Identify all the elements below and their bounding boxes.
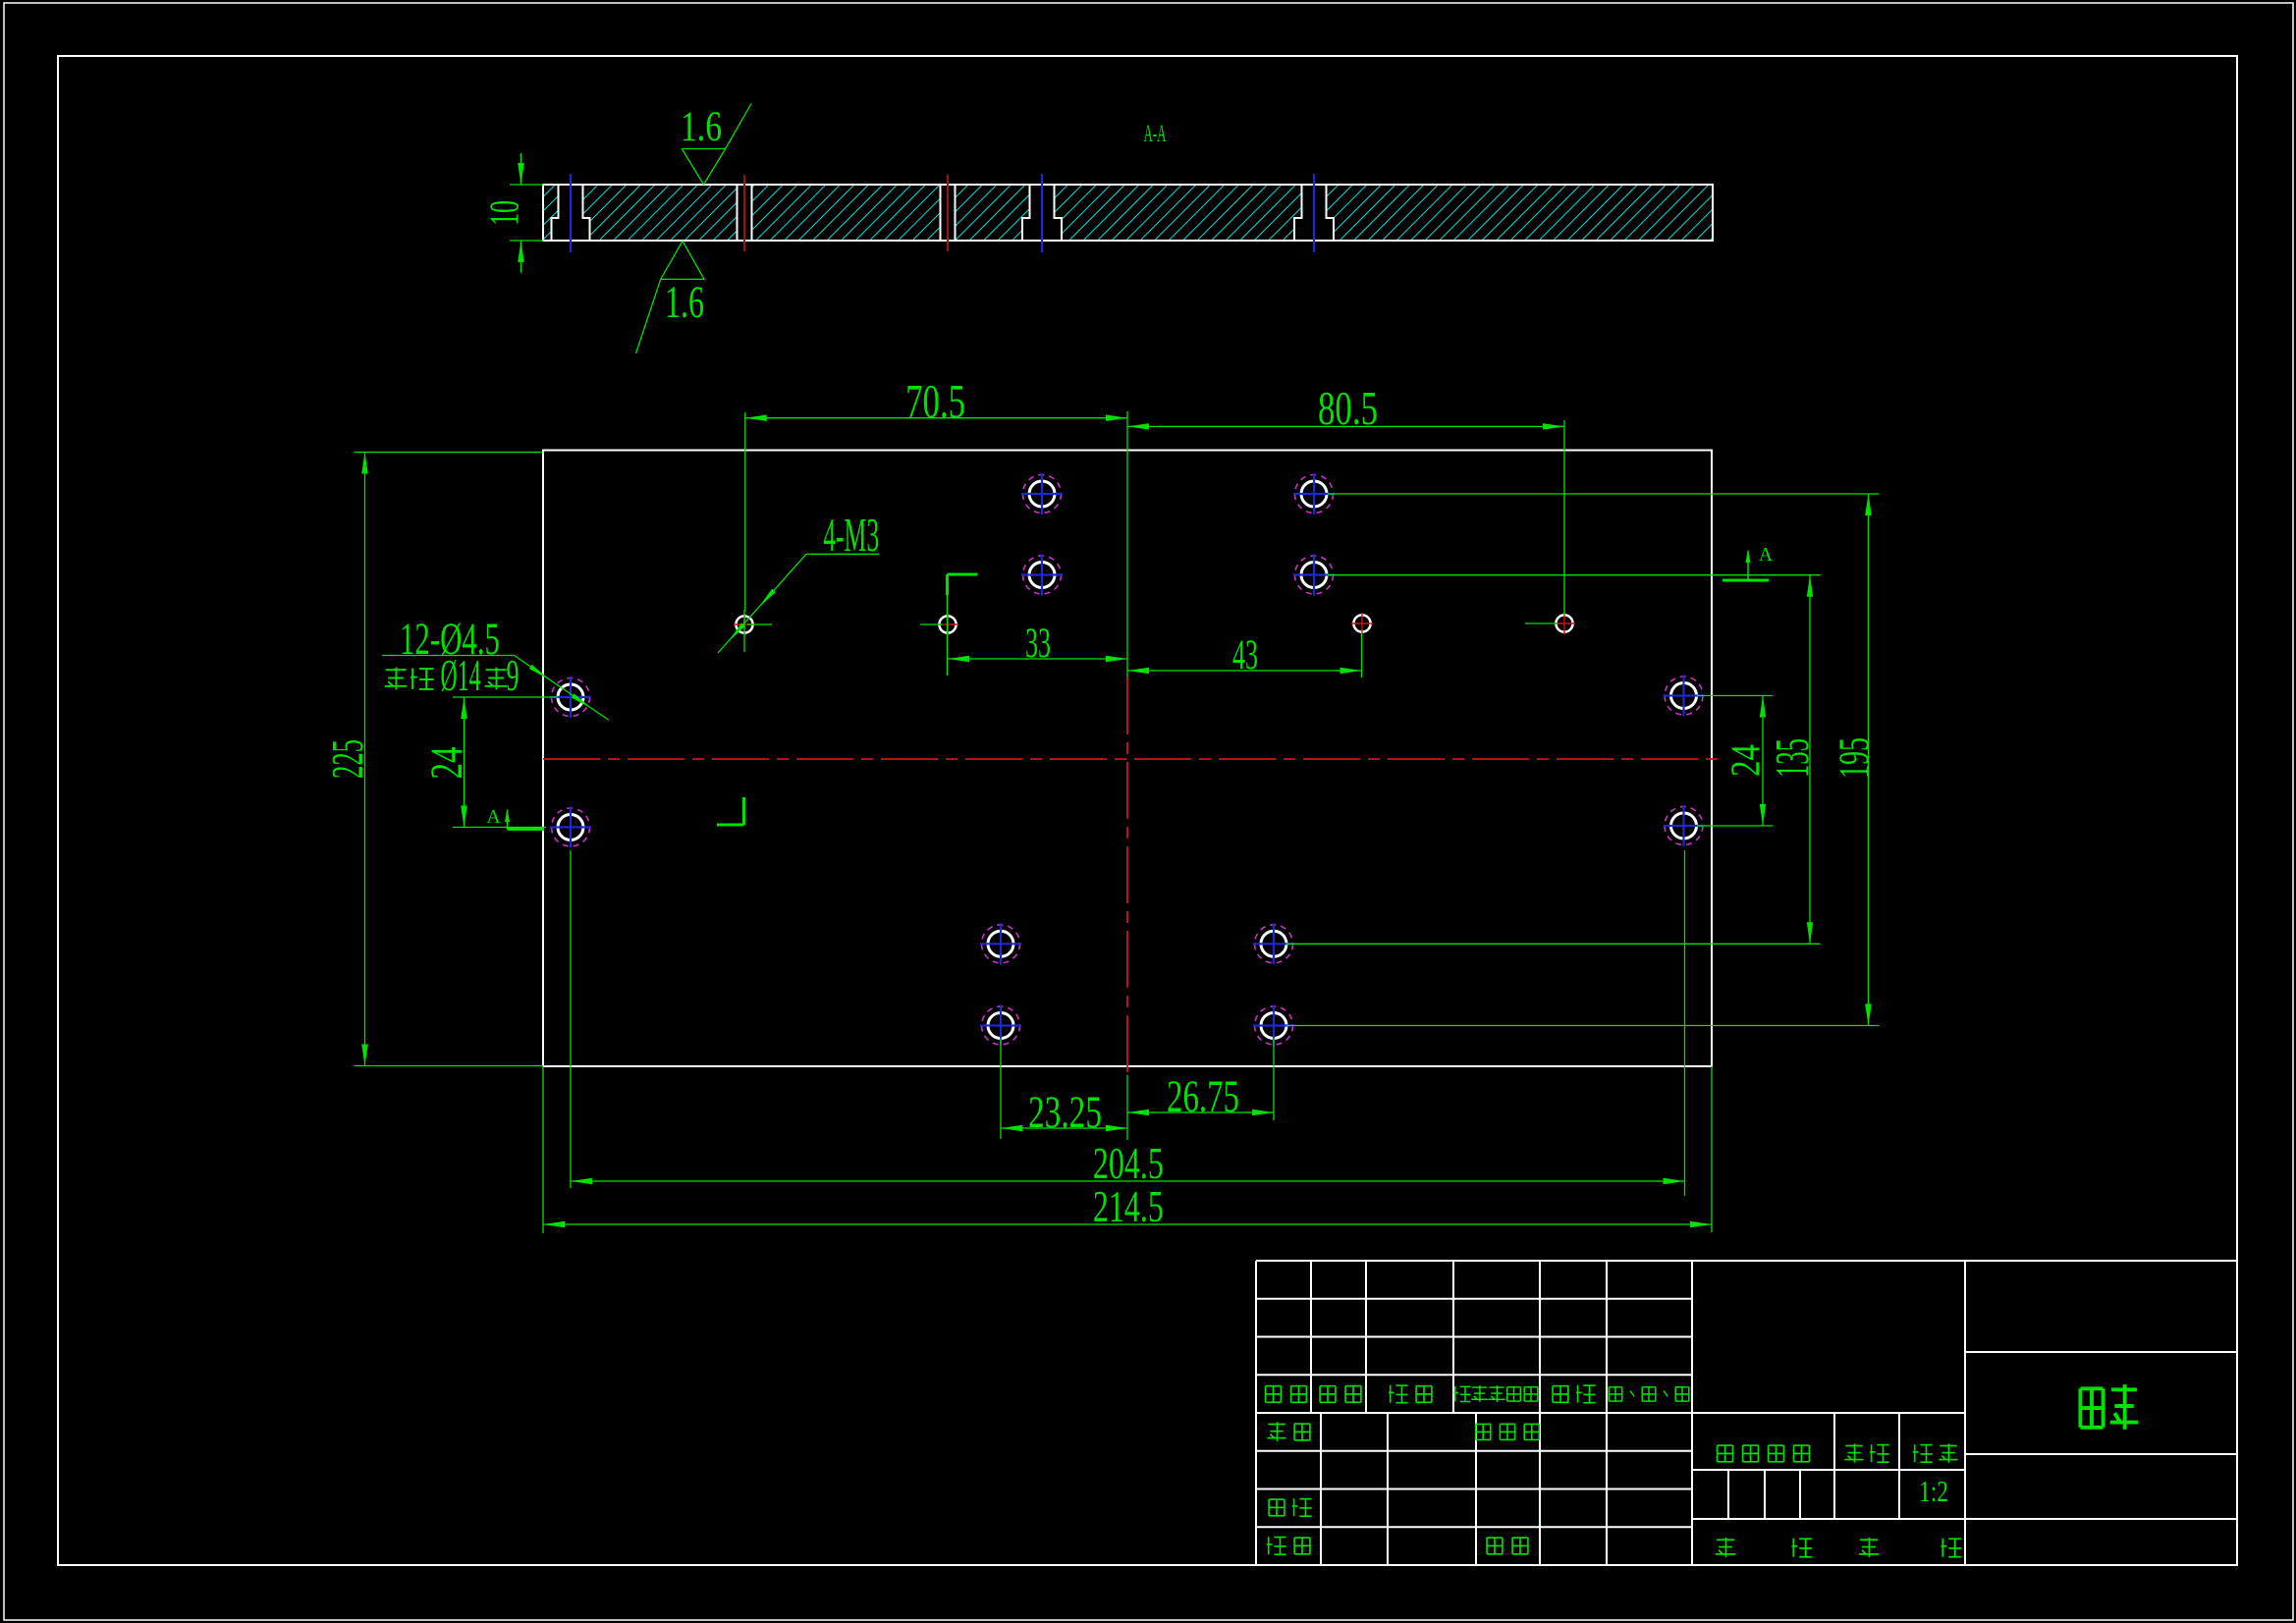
dimension 80.5 xyxy=(1127,383,1564,615)
section line bend mark 1 xyxy=(717,797,744,825)
label pizhun xyxy=(1487,1538,1528,1554)
dimension 204.5 xyxy=(571,850,1685,1196)
label zhongliang xyxy=(1844,1443,1888,1462)
section M3 tapped hole at x=965 xyxy=(941,175,956,251)
svg-text:9: 9 xyxy=(507,651,519,700)
counterbore hole (1338,585.5) xyxy=(1293,555,1335,596)
counterbore hole (1061,585.5) xyxy=(1021,555,1063,596)
label qianming xyxy=(1553,1385,1596,1403)
label chushu xyxy=(1320,1386,1361,1403)
svg-text:1.6: 1.6 xyxy=(665,277,704,328)
dimension 135 xyxy=(1286,575,1821,945)
counterbore hole (1338,503) xyxy=(1293,473,1335,514)
svg-text:A-A: A-A xyxy=(1144,119,1167,147)
counterbore hole (581,842.5) xyxy=(550,807,591,848)
svg-text:214.5: 214.5 xyxy=(1093,1182,1164,1231)
label gongyi xyxy=(1267,1537,1310,1554)
svg-text:A: A xyxy=(486,807,500,828)
M3 threaded hole (965,636) xyxy=(937,614,958,635)
counterbore hole (1019,961.3) xyxy=(980,923,1021,964)
horizontal centerline xyxy=(543,758,1719,760)
svg-text:43: 43 xyxy=(1232,631,1258,678)
svg-text:195: 195 xyxy=(1831,737,1878,779)
svg-text:23.25: 23.25 xyxy=(1028,1087,1102,1138)
section hole centerline x=581 xyxy=(570,174,572,252)
centerline extension top xyxy=(1126,411,1128,677)
label biaoji xyxy=(1266,1386,1307,1403)
scale 1:2 xyxy=(1919,1475,1948,1508)
dimension 10 (section thickness) xyxy=(482,153,543,273)
dimension 43 xyxy=(1127,631,1362,678)
vertical centerline xyxy=(1126,677,1128,1075)
label 12-dia4.5 counterbore xyxy=(382,614,609,721)
dimension 214.5 xyxy=(543,1066,1712,1233)
counterbore hole (1061,503) xyxy=(1021,473,1063,514)
svg-text:24: 24 xyxy=(1722,744,1769,777)
section marker A bottom xyxy=(486,807,544,830)
counterbore hole (581,710) xyxy=(550,676,591,718)
surface roughness 1.6 top xyxy=(681,103,751,185)
section counterbore hole at x=1338 xyxy=(1294,185,1334,241)
svg-text:1.6: 1.6 xyxy=(681,103,722,150)
label shenhe xyxy=(1269,1498,1312,1516)
svg-text:70.5: 70.5 xyxy=(905,376,965,428)
svg-text:225: 225 xyxy=(323,739,372,779)
title block grid xyxy=(1256,1261,2237,1565)
label bili xyxy=(1913,1443,1958,1462)
M3 threaded hole (758,636) xyxy=(734,614,755,635)
section line bend mark 2 xyxy=(948,574,978,676)
svg-text:1:2: 1:2 xyxy=(1919,1475,1948,1508)
dimension 26.75 xyxy=(1127,1038,1274,1122)
plan view plate outline xyxy=(543,451,1712,1067)
dimension 225 (left height) xyxy=(323,453,543,1066)
tick at M3 hole 1593 xyxy=(1525,622,1558,624)
dimension 195 xyxy=(1286,494,1880,1026)
svg-text:80.5: 80.5 xyxy=(1318,383,1378,435)
label sheji xyxy=(1267,1422,1310,1440)
dimension 33 xyxy=(948,620,1127,667)
svg-text:33: 33 xyxy=(1025,620,1051,667)
label genggai xyxy=(1453,1385,1538,1402)
section counterbore hole at x=581 xyxy=(552,185,590,241)
dimension 70.5 xyxy=(745,376,1127,611)
counterbore hole (1297,961.3) xyxy=(1253,923,1294,964)
svg-text:135: 135 xyxy=(1767,738,1819,778)
M3 threaded hole (1593,635) xyxy=(1554,613,1575,634)
svg-text:Ø14: Ø14 xyxy=(441,651,481,700)
counterbore hole (1019,1044.5) xyxy=(980,1005,1021,1047)
label 4-M3 with leader xyxy=(718,510,879,653)
svg-text:24: 24 xyxy=(421,747,472,780)
svg-text:A: A xyxy=(1759,545,1773,566)
label biaozhunhua xyxy=(1476,1424,1540,1439)
surface roughness 1.6 bottom xyxy=(636,242,705,354)
svg-text:10: 10 xyxy=(482,200,528,226)
section marker A top xyxy=(1722,545,1773,580)
dimension 24 (left) xyxy=(421,697,558,828)
counterbore hole (1714.5,841) xyxy=(1664,805,1705,846)
label fenqu xyxy=(1389,1385,1432,1403)
part name diban xyxy=(2080,1384,2138,1430)
tick at M3 hole 965 xyxy=(920,623,942,625)
section counterbore hole at x=1061 xyxy=(1022,185,1062,241)
label nianyueri xyxy=(1609,1387,1689,1401)
section hatching xyxy=(484,183,1825,242)
section hole centerline x=1061 xyxy=(1041,174,1043,252)
M3 threaded hole (1387,635) xyxy=(1351,613,1373,634)
dimension 23.25 xyxy=(1001,1038,1127,1140)
svg-text:26.75: 26.75 xyxy=(1167,1071,1239,1122)
dimension 24 (right) xyxy=(1697,696,1773,827)
tick at M3 hole 758 xyxy=(744,610,772,652)
svg-text:204.5: 204.5 xyxy=(1093,1139,1164,1188)
svg-text:4-M3: 4-M3 xyxy=(823,510,879,562)
section plate outline xyxy=(543,185,1713,241)
section hole centerline x=1338 xyxy=(1313,174,1315,252)
label gong zhang di zhang xyxy=(1716,1538,1961,1557)
counterbore hole (1714.5,708.5) xyxy=(1664,676,1705,717)
counterbore hole (1297,1044.5) xyxy=(1253,1005,1294,1047)
section A-A label xyxy=(1144,119,1167,147)
label jieduanbiaoji xyxy=(1718,1445,1810,1462)
section M3 tapped hole at x=758 xyxy=(738,175,752,251)
